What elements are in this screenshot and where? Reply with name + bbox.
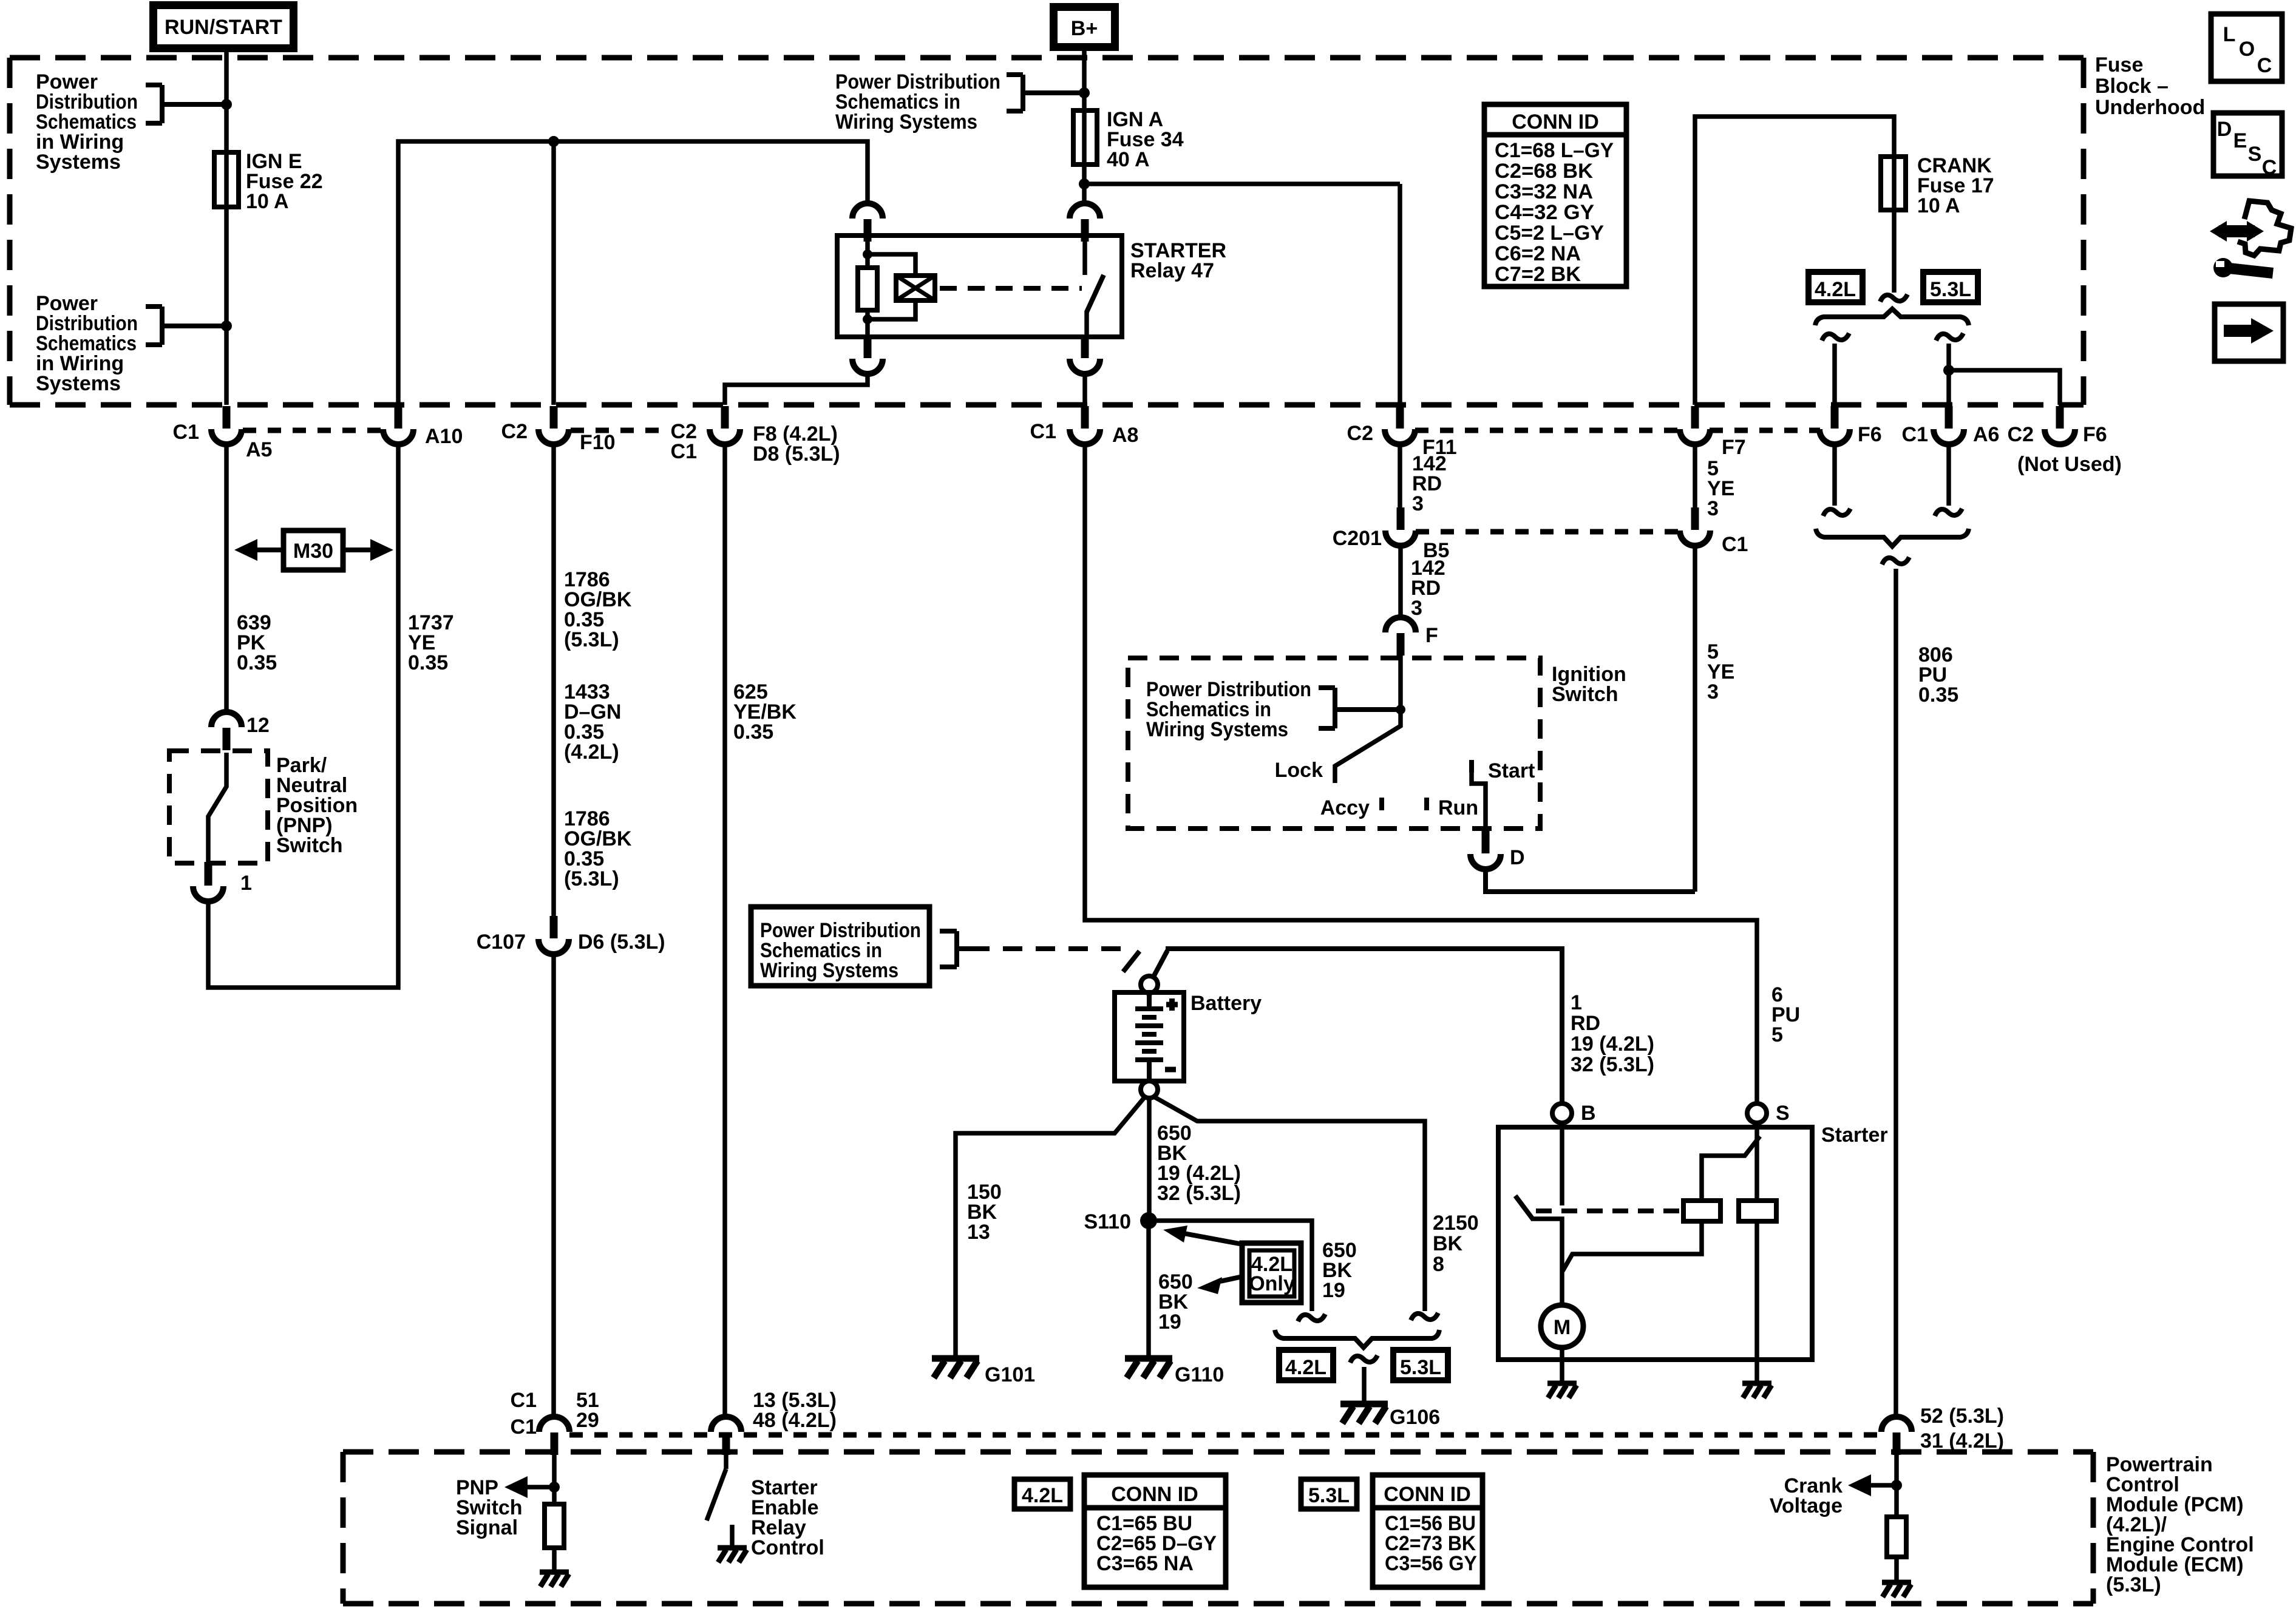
4.2L box (PCM) bbox=[1014, 1479, 1070, 1509]
battery box bbox=[1115, 992, 1184, 1081]
svg-text:Fuse: Fuse bbox=[2095, 53, 2143, 76]
relay switch blade bbox=[1087, 275, 1104, 312]
arrow and wrench icon bbox=[2210, 201, 2291, 277]
CONN ID table (5.3L) bbox=[1373, 1475, 1483, 1587]
ground starter motor bbox=[1547, 1383, 1577, 1398]
break squiggle below F6 bbox=[1823, 509, 1850, 516]
starter S wire bbox=[1754, 1123, 1759, 1382]
break squiggle 650 leg bbox=[1298, 1314, 1325, 1321]
wire S110 to G110 bbox=[1146, 1221, 1151, 1357]
svg-text:BK: BK bbox=[1433, 1232, 1463, 1255]
relay coil bottom wire bbox=[865, 310, 870, 337]
svg-text:C: C bbox=[2257, 54, 2272, 77]
svg-text:C1: C1 bbox=[671, 440, 697, 463]
relay solenoid box with X bbox=[896, 276, 935, 300]
4.2L Only box bbox=[1242, 1243, 1301, 1303]
svg-text:C1: C1 bbox=[1722, 533, 1748, 556]
connector row dotted C201-C1 bbox=[1416, 529, 1680, 535]
svg-text:M: M bbox=[1554, 1316, 1571, 1339]
wire jumper A6 to C2 F6 bbox=[1949, 370, 2060, 405]
label IGN E Fuse 22 10 A bbox=[246, 150, 323, 213]
ground G110 bbox=[1125, 1358, 1172, 1378]
break squiggle below A6 bbox=[1935, 509, 1962, 516]
bracket battery ref bbox=[940, 931, 970, 967]
starter coil1 top arm bbox=[1702, 1136, 1760, 1201]
connector C1 51 / C1 29 bbox=[539, 1417, 569, 1455]
node ignition junction bbox=[1396, 705, 1405, 714]
DESC icon box bbox=[2213, 113, 2282, 179]
svg-text:3: 3 bbox=[1411, 597, 1422, 620]
wire PNP loop to A10 bbox=[208, 444, 398, 988]
wire RUN/START to IGN E fuse bbox=[224, 48, 229, 405]
svg-text:F6: F6 bbox=[2083, 423, 2107, 446]
svg-text:19: 19 bbox=[1322, 1279, 1345, 1302]
svg-text:D: D bbox=[1510, 846, 1525, 869]
label Park/Neutral Position (PNP) Switch bbox=[276, 754, 358, 857]
svg-text:C2: C2 bbox=[1347, 422, 1373, 445]
svg-text:13: 13 bbox=[967, 1221, 990, 1244]
svg-text:C2: C2 bbox=[2008, 423, 2034, 446]
PNP signal wire bbox=[552, 1449, 557, 1504]
label STARTER Relay 47 bbox=[1130, 239, 1226, 282]
label PNP Switch Signal bbox=[456, 1476, 523, 1539]
PCM connector row dotted bbox=[569, 1432, 1882, 1438]
svg-text:0.35: 0.35 bbox=[733, 720, 773, 744]
starter solenoid coil 1 bbox=[1683, 1201, 1720, 1221]
svg-text:C201: C201 bbox=[1333, 527, 1382, 550]
wire F11 down bbox=[1398, 184, 1402, 405]
fuse IGN A 34 bbox=[1073, 110, 1097, 164]
svg-text:Start: Start bbox=[1488, 759, 1535, 782]
label Ignition Switch bbox=[1552, 663, 1626, 706]
svg-text:Wiring Systems: Wiring Systems bbox=[1146, 718, 1288, 741]
resistor PNP bbox=[545, 1504, 564, 1548]
svg-text:48 (4.2L): 48 (4.2L) bbox=[753, 1409, 837, 1432]
RUN/START box bbox=[154, 5, 294, 49]
label 1433 D-GN 0.35 (4.2L) bbox=[564, 680, 621, 764]
wire relay switch to A8 bbox=[1082, 374, 1087, 405]
svg-text:19 (4.2L): 19 (4.2L) bbox=[1571, 1032, 1654, 1056]
label 650 BK 19 (S110 leg) bbox=[1158, 1270, 1193, 1334]
wire F8 to PCM bbox=[722, 444, 727, 1417]
battery positive terminal circle bbox=[1141, 976, 1158, 993]
svg-text:C107: C107 bbox=[477, 931, 526, 954]
node junction F10 takeoff bbox=[548, 136, 559, 147]
svg-text:0.35: 0.35 bbox=[237, 651, 277, 674]
svg-text:C1=68 L–GY: C1=68 L–GY bbox=[1495, 139, 1614, 162]
connector C201 B5 bbox=[1385, 507, 1416, 546]
svg-text:8: 8 bbox=[1433, 1253, 1444, 1276]
svg-text:Wiring Systems: Wiring Systems bbox=[835, 110, 977, 134]
arrow 4.2L Only to 650 leg bbox=[1217, 1276, 1243, 1282]
label 142 RD 3 bbox=[1412, 452, 1447, 515]
wire F11 to C201 bbox=[1398, 444, 1402, 512]
label 625 YE/BK 0.35 bbox=[733, 680, 796, 744]
label Power Distribution Schematics in Wiring Systems (top middle) bbox=[835, 70, 1000, 134]
connector 13 48 bbox=[711, 1417, 741, 1455]
ground starter enable bbox=[718, 1548, 747, 1562]
svg-text:(5.3L): (5.3L) bbox=[2106, 1573, 2161, 1596]
starter motor ground wire bbox=[1560, 1347, 1564, 1382]
svg-text:C2=68 BK: C2=68 BK bbox=[1495, 160, 1593, 183]
fuse block label bbox=[2095, 53, 2205, 119]
label IGN A Fuse 34 40 A bbox=[1107, 108, 1184, 171]
ignition switch dashed box bbox=[1128, 658, 1540, 829]
connector 12 (PNP top) bbox=[211, 712, 242, 750]
svg-text:CONN ID: CONN ID bbox=[1512, 110, 1599, 134]
PNP switch dashed box bbox=[169, 751, 268, 863]
fuse block underhood dashed box bbox=[10, 58, 2084, 405]
LOC icon box bbox=[2211, 14, 2282, 81]
starter motor feed bbox=[1532, 1219, 1562, 1306]
connector C2 F10 bbox=[538, 406, 569, 444]
svg-text:32 (5.3L): 32 (5.3L) bbox=[1571, 1053, 1654, 1076]
starter switch blade bbox=[1515, 1196, 1533, 1220]
wire F10 inside fuse block bbox=[551, 141, 556, 405]
arrow PNP signal bbox=[523, 1485, 554, 1490]
wire A10 up and over to relay coil bbox=[398, 141, 868, 405]
ground G106 bbox=[1340, 1404, 1388, 1423]
svg-text:10 A: 10 A bbox=[1917, 194, 1960, 217]
label 6 PU 5 bbox=[1771, 983, 1800, 1046]
svg-text:C1: C1 bbox=[1030, 420, 1056, 443]
bracket top left label bbox=[146, 85, 226, 123]
svg-text:(Not Used): (Not Used) bbox=[2017, 453, 2122, 476]
label 5 YE 3 (upper) bbox=[1707, 457, 1734, 520]
connector A10 bbox=[383, 406, 413, 444]
starter motor M bbox=[1541, 1305, 1583, 1347]
svg-text:M30: M30 bbox=[293, 540, 333, 563]
4.2L box (G106) bbox=[1279, 1350, 1333, 1380]
svg-text:C1: C1 bbox=[173, 421, 199, 444]
connector row dotted A5-A10 bbox=[243, 428, 382, 433]
svg-text:Voltage: Voltage bbox=[1770, 1494, 1843, 1517]
label Power Distribution Schematics in Wiring Systems (ignition) bbox=[1146, 678, 1311, 741]
svg-text:40 A: 40 A bbox=[1107, 148, 1150, 171]
node relay coil bottom bbox=[863, 314, 872, 324]
svg-text:10 A: 10 A bbox=[246, 190, 289, 213]
svg-text:B: B bbox=[1581, 1102, 1596, 1125]
svg-text:D6 (5.3L): D6 (5.3L) bbox=[578, 931, 665, 954]
label 1737 YE 0.35 bbox=[408, 611, 454, 674]
svg-text:Wiring Systems: Wiring Systems bbox=[760, 959, 898, 982]
svg-text:2150: 2150 bbox=[1433, 1212, 1479, 1235]
svg-text:3: 3 bbox=[1412, 492, 1424, 515]
svg-text:F6: F6 bbox=[1858, 423, 1882, 446]
svg-text:52 (5.3L): 52 (5.3L) bbox=[1920, 1405, 2004, 1428]
svg-text:Relay 47: Relay 47 bbox=[1130, 259, 1214, 282]
wire below F6 bbox=[1832, 444, 1837, 506]
connector C2 C1 F8 D8 bbox=[710, 406, 740, 444]
connector D bbox=[1470, 831, 1501, 869]
svg-text:C3=56 GY: C3=56 GY bbox=[1385, 1552, 1477, 1575]
svg-text:C1: C1 bbox=[511, 1389, 537, 1412]
ground starter solenoid bbox=[1742, 1383, 1771, 1398]
svg-text:4.2L: 4.2L bbox=[1285, 1356, 1326, 1379]
svg-text:Lock: Lock bbox=[1275, 759, 1323, 782]
svg-text:5: 5 bbox=[1771, 1023, 1783, 1046]
break squiggle below CRANK fuse bbox=[1880, 294, 1907, 302]
label Power Distribution Schematics in Wiring Systems (top left) bbox=[36, 70, 138, 174]
starter relay box bbox=[837, 236, 1122, 337]
B+ box bbox=[1054, 7, 1115, 47]
5.3L box (PCM) bbox=[1301, 1479, 1357, 1509]
wire C107 to PCM bbox=[551, 954, 556, 1417]
relay switch out wire bbox=[1084, 311, 1089, 337]
wire S110 branch right bbox=[1149, 1221, 1312, 1311]
wire F10 to C107 bbox=[551, 444, 556, 920]
5.3L box (fuse block) bbox=[1923, 272, 1978, 302]
svg-text:12: 12 bbox=[246, 714, 270, 737]
svg-text:29: 29 bbox=[576, 1409, 599, 1432]
svg-text:RD: RD bbox=[1571, 1012, 1600, 1035]
connector C2 F11 bbox=[1385, 406, 1415, 444]
starter box bbox=[1498, 1127, 1812, 1360]
wire A6 branch bbox=[1946, 344, 1951, 405]
resistor crank voltage bbox=[1887, 1517, 1906, 1557]
starter B feed wire bbox=[1560, 1123, 1564, 1205]
svg-text:O: O bbox=[2239, 38, 2255, 61]
break squiggle 4.2L branch top bbox=[1822, 333, 1849, 341]
Start tick bbox=[1469, 760, 1474, 773]
svg-text:Block –: Block – bbox=[2095, 75, 2169, 98]
starter coil1 to motor arm bbox=[1563, 1221, 1702, 1271]
starter internal dashed bbox=[1536, 1209, 1680, 1213]
CONN ID table (fuse block) bbox=[1484, 104, 1626, 286]
svg-text:C1: C1 bbox=[511, 1415, 537, 1439]
label Power Distribution Schematics in Wiring Systems (battery ref box) bbox=[751, 907, 929, 986]
label 5 YE 3 (lower) bbox=[1707, 640, 1734, 703]
connector C1 A6 bbox=[1934, 406, 1964, 444]
connector C107 D6 bbox=[538, 916, 569, 954]
ignition Lock blade bbox=[1335, 710, 1401, 783]
connector F6 bbox=[1819, 406, 1850, 444]
connector row dotted F10-F8 bbox=[571, 428, 662, 433]
battery disconnect blade bbox=[1123, 951, 1140, 972]
svg-text:4.2L: 4.2L bbox=[1815, 278, 1856, 301]
arrow 4.2L Only to S110 bbox=[1184, 1233, 1243, 1244]
wire battery negative branches bbox=[956, 1097, 1425, 1357]
node junction IGN E wire / label tee bbox=[221, 99, 232, 110]
svg-text:Switch: Switch bbox=[276, 834, 343, 857]
svg-text:1: 1 bbox=[1571, 991, 1582, 1014]
label Crank Voltage bbox=[1770, 1474, 1843, 1517]
5.3L box (G106) bbox=[1393, 1350, 1448, 1380]
label 1 RD 19 32 bbox=[1571, 991, 1654, 1076]
svg-text:B+: B+ bbox=[1071, 17, 1098, 40]
svg-text:1: 1 bbox=[240, 872, 252, 895]
svg-text:Battery: Battery bbox=[1190, 992, 1262, 1015]
svg-text:Only: Only bbox=[1249, 1272, 1295, 1295]
wire relay coil out to F8 bbox=[725, 374, 868, 405]
relay coil top connector bbox=[852, 203, 883, 242]
svg-text:3: 3 bbox=[1707, 497, 1719, 520]
svg-text:C5=2 L–GY: C5=2 L–GY bbox=[1495, 222, 1604, 245]
svg-text:5.3L: 5.3L bbox=[1930, 278, 1971, 301]
starter enable wire bbox=[724, 1449, 729, 1469]
Run tick bbox=[1424, 798, 1429, 810]
node junction lower tee bbox=[221, 320, 232, 331]
fuse CRANK 17 bbox=[1881, 157, 1906, 210]
relay resistor bbox=[858, 268, 877, 310]
svg-text:Underhood: Underhood bbox=[2095, 96, 2205, 119]
label 142 RD 3 lower bbox=[1411, 557, 1445, 620]
svg-text:D: D bbox=[2217, 118, 2232, 141]
svg-text:C4=32 GY: C4=32 GY bbox=[1495, 201, 1594, 224]
label 650 BK 19 (right leg) bbox=[1322, 1239, 1357, 1302]
break squiggle 2150 leg bbox=[1411, 1313, 1438, 1320]
terminal B circle bbox=[1552, 1103, 1572, 1123]
starter solenoid coil 2 bbox=[1739, 1201, 1776, 1221]
svg-text:G106: G106 bbox=[1390, 1406, 1440, 1429]
svg-text:CONN ID: CONN ID bbox=[1111, 1483, 1198, 1506]
pin D bbox=[1482, 829, 1490, 847]
connector C1 A5 bbox=[211, 406, 242, 444]
pin below PNP box bbox=[205, 862, 212, 881]
connector F (ignition) bbox=[1385, 617, 1416, 656]
label Powertrain Control Module bbox=[2106, 1453, 2254, 1596]
connector 52 31 bbox=[1881, 1417, 1912, 1455]
wire F6 branch bbox=[1832, 344, 1837, 405]
M30 box with arrows bbox=[234, 531, 393, 570]
svg-text:Systems: Systems bbox=[36, 372, 121, 395]
svg-text:31 (4.2L): 31 (4.2L) bbox=[1920, 1429, 2004, 1453]
relay coil bottom connector bbox=[852, 336, 883, 374]
dashed wire battery ref bbox=[970, 946, 1122, 951]
svg-text:F7: F7 bbox=[1722, 436, 1746, 459]
wire battery plus diagonal bbox=[1153, 951, 1167, 978]
svg-text:5.3L: 5.3L bbox=[1400, 1356, 1441, 1379]
svg-text:Systems: Systems bbox=[36, 151, 121, 174]
svg-text:Run: Run bbox=[1438, 796, 1478, 819]
svg-text:S: S bbox=[1776, 1102, 1790, 1125]
relay switch bottom connector bbox=[1070, 336, 1100, 374]
ground PNP bbox=[540, 1572, 569, 1587]
wire D to F7 riser bbox=[1486, 869, 1695, 892]
svg-text:19: 19 bbox=[1158, 1310, 1181, 1334]
connector C2 F6 (not used) bbox=[2045, 406, 2075, 444]
wire crank resistor to ground bbox=[1894, 1557, 1899, 1581]
svg-text:G110: G110 bbox=[1175, 1363, 1224, 1386]
svg-text:Signal: Signal bbox=[456, 1516, 518, 1539]
arrow crank voltage bbox=[1867, 1483, 1897, 1488]
brace merge G106 bbox=[1275, 1330, 1439, 1347]
break squiggle G106 bbox=[1350, 1355, 1377, 1363]
svg-text:S110: S110 bbox=[1084, 1210, 1131, 1233]
relay internal dashed link bbox=[940, 286, 1082, 291]
label Power Distribution Schematics in Wiring Systems (left lower) bbox=[36, 292, 138, 395]
label 150 BK 13 bbox=[967, 1181, 1002, 1244]
bracket ignition label bbox=[1319, 688, 1401, 728]
svg-text:C3=32 NA: C3=32 NA bbox=[1495, 180, 1593, 203]
wire to G106 bbox=[1362, 1367, 1367, 1403]
node relay coil top bbox=[863, 249, 872, 259]
wire A5 to PNP switch bbox=[224, 444, 229, 712]
svg-text:32 (5.3L): 32 (5.3L) bbox=[1157, 1182, 1241, 1205]
battery plus sign bbox=[1166, 998, 1178, 1011]
connector row dotted F11-F7-F6 bbox=[1415, 428, 1820, 433]
Accy tick bbox=[1379, 798, 1384, 810]
battery minus sign bbox=[1165, 1067, 1176, 1073]
CONN ID table (4.2L) bbox=[1084, 1475, 1226, 1587]
label 650 BK 19 (4.2L) 32 (5.3L) bbox=[1157, 1122, 1241, 1205]
svg-text:A6: A6 bbox=[1973, 423, 1999, 446]
svg-text:(5.3L): (5.3L) bbox=[564, 628, 619, 651]
relay switch fixed contact bbox=[1082, 237, 1087, 275]
PCM dashed box bbox=[343, 1452, 2093, 1604]
bracket lower left label bbox=[146, 307, 226, 345]
svg-text:C7=2 BK: C7=2 BK bbox=[1495, 263, 1581, 286]
label 1786 OG/BK 0.35 (5.3L) bbox=[564, 568, 632, 651]
ground G101 bbox=[932, 1358, 979, 1378]
break squiggle 5.3L branch top bbox=[1936, 333, 1963, 341]
wire F7 up to CRANK fuse bbox=[1695, 117, 1894, 405]
wire battery to B bbox=[1166, 949, 1562, 1103]
node junction B+ tee bbox=[1079, 87, 1090, 98]
svg-text:A5: A5 bbox=[246, 438, 272, 461]
svg-text:4.2L: 4.2L bbox=[1022, 1484, 1063, 1507]
svg-text:Accy: Accy bbox=[1320, 796, 1370, 819]
wire F into switch bbox=[1398, 652, 1403, 714]
splice S110 bbox=[1140, 1212, 1157, 1229]
wire 806 PU down bbox=[1894, 569, 1898, 1417]
break squiggle 806 top bbox=[1882, 557, 1909, 564]
battery negative terminal circle bbox=[1141, 1081, 1158, 1098]
wire C201 to F bbox=[1398, 546, 1403, 619]
starter enable blade bbox=[707, 1469, 726, 1520]
svg-text:CONN ID: CONN ID bbox=[1384, 1483, 1471, 1506]
svg-text:D8 (5.3L): D8 (5.3L) bbox=[753, 442, 840, 466]
wire B+ down bbox=[1082, 48, 1087, 204]
wire IGN A branch to F11 bbox=[1084, 181, 1400, 186]
svg-text:0.35: 0.35 bbox=[408, 651, 448, 674]
connector F7 bbox=[1680, 406, 1710, 444]
brace merge to 806 bbox=[1816, 529, 1969, 546]
bracket top middle label bbox=[1007, 75, 1084, 111]
svg-text:5.3L: 5.3L bbox=[1308, 1484, 1350, 1507]
label 1786 OG/BK 0.35 (5.3L) lower bbox=[564, 807, 632, 890]
starter enable stub bbox=[730, 1525, 735, 1547]
relay switch top connector bbox=[1070, 203, 1100, 242]
terminal S circle bbox=[1747, 1103, 1767, 1123]
svg-text:C1: C1 bbox=[1902, 423, 1928, 446]
label 2150 BK 8 bbox=[1433, 1212, 1479, 1276]
ignition Start wire to D bbox=[1472, 771, 1486, 830]
node crank voltage bbox=[1891, 1480, 1902, 1491]
svg-text:(5.3L): (5.3L) bbox=[564, 867, 619, 890]
battery plates bbox=[1135, 994, 1163, 1080]
relay coil loop bbox=[868, 254, 915, 319]
svg-text:C3=65 NA: C3=65 NA bbox=[1096, 1552, 1194, 1575]
connector C1 (F7 row) bbox=[1680, 507, 1710, 546]
brace split crank bbox=[1815, 309, 1969, 325]
svg-text:F10: F10 bbox=[580, 431, 616, 454]
crank voltage wire bbox=[1894, 1449, 1899, 1517]
svg-text:F: F bbox=[1425, 624, 1438, 647]
ground crank voltage bbox=[1882, 1582, 1911, 1597]
svg-text:Switch: Switch bbox=[1552, 683, 1618, 706]
node junction IGN A branch bbox=[1079, 178, 1090, 189]
svg-text:L: L bbox=[2223, 23, 2236, 46]
svg-text:A10: A10 bbox=[425, 425, 463, 448]
svg-text:C: C bbox=[2262, 156, 2277, 179]
svg-text:0.35: 0.35 bbox=[1918, 683, 1958, 707]
relay coil wire bbox=[865, 237, 870, 268]
connector 1 (PNP bottom) bbox=[193, 863, 223, 901]
node A6 jumper bbox=[1943, 365, 1954, 376]
svg-text:3: 3 bbox=[1707, 680, 1719, 703]
svg-text:A8: A8 bbox=[1112, 424, 1138, 447]
